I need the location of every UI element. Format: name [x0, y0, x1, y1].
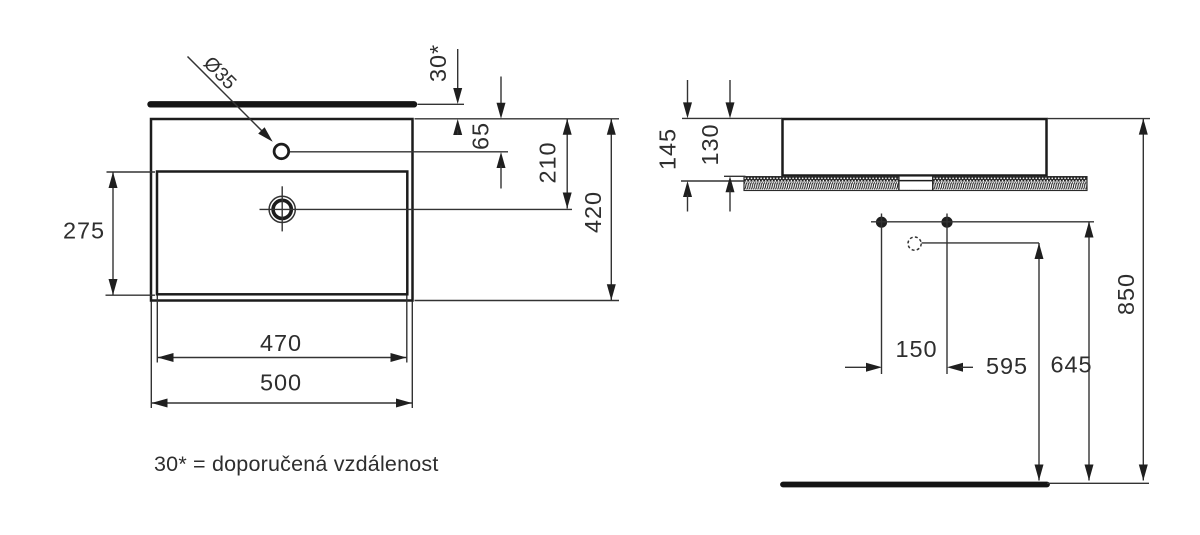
svg-text:645: 645: [1051, 352, 1093, 378]
dimension 850 vertical: [1113, 119, 1148, 481]
dimension 275: [63, 172, 117, 295]
dimension 130: [697, 80, 735, 212]
extension lines below basin for 470: [156, 296, 158, 363]
dimension 645 vertical: [1085, 222, 1094, 481]
svg-text:500: 500: [260, 370, 302, 396]
dimension 470: [158, 330, 407, 362]
gap crossing line: [899, 180, 933, 182]
dimension 145: [655, 80, 693, 212]
bolt holes line: [871, 221, 1094, 223]
basin body side view: [783, 119, 1047, 176]
basin inner rectangle (bowl): [157, 172, 407, 295]
floor line (thick): [783, 482, 1047, 488]
tap hole (Ø35 circle): [274, 144, 289, 159]
gap right edge: [932, 176, 934, 190]
dimension 595 vertical: [1035, 243, 1044, 481]
extension line basin top, to right: [415, 118, 620, 120]
svg-text:30* = doporučená vzdálenost: 30* = doporučená vzdálenost: [154, 452, 439, 476]
svg-text:595: 595: [986, 353, 1028, 379]
dimension 30*: [425, 44, 462, 135]
dimension 150: [845, 336, 973, 372]
svg-text:470: 470: [260, 330, 302, 356]
floor extension thin: [1047, 482, 1149, 484]
svg-text:Ø35: Ø35: [199, 52, 241, 94]
svg-text:130: 130: [697, 124, 723, 166]
tick 130 bottom: [724, 175, 746, 177]
extension line basin top, to left: [682, 117, 782, 119]
extension line 145 bottom: [681, 180, 744, 182]
mounting strip hatch: [744, 176, 1087, 190]
svg-text:65: 65: [468, 122, 494, 150]
extension line bowl top, to left: [107, 171, 156, 173]
extension line basin bottom, to right: [415, 300, 620, 302]
svg-text:210: 210: [535, 142, 561, 184]
gap left edge: [898, 176, 900, 190]
drain leader / crosshair horizontal: [260, 208, 573, 210]
svg-text:150: 150: [896, 336, 938, 362]
bolt hole dot left: [876, 217, 887, 228]
drain inner circle: [273, 200, 291, 218]
svg-text:30*: 30*: [425, 44, 451, 82]
svg-text:420: 420: [580, 191, 606, 233]
extension line basin top, to right: [1047, 118, 1150, 120]
strip bottom edge across gap: [899, 189, 933, 191]
dimension 210: [535, 119, 572, 209]
wall / shelf front edge (thick bar): [151, 101, 415, 107]
Ø35 leader line: [188, 57, 264, 133]
dimension 420: [580, 119, 616, 300]
Ø35 leader arrowhead: [258, 127, 276, 145]
extension down from left bolt: [881, 214, 883, 375]
dimension 65: [468, 77, 506, 189]
tick at bar level (30* reference): [418, 103, 465, 105]
drain position dashed circle: [908, 237, 921, 250]
basin outer rectangle: [151, 119, 413, 301]
dimension 500: [152, 370, 413, 408]
tap hole leader line: [290, 151, 508, 153]
bolt hole dot right: [941, 217, 952, 228]
svg-text:275: 275: [63, 218, 105, 244]
drain height line: [922, 242, 1039, 244]
drain crosshair vertical: [281, 186, 283, 231]
extension lines below basin for 500: [150, 302, 152, 409]
extension line bowl bottom, to left: [106, 294, 156, 296]
extension down from right bolt: [946, 214, 948, 375]
svg-text:850: 850: [1113, 273, 1139, 315]
svg-text:145: 145: [655, 128, 681, 170]
drain gap in strip (white): [899, 177, 932, 190]
drain outer circle: [269, 196, 295, 222]
